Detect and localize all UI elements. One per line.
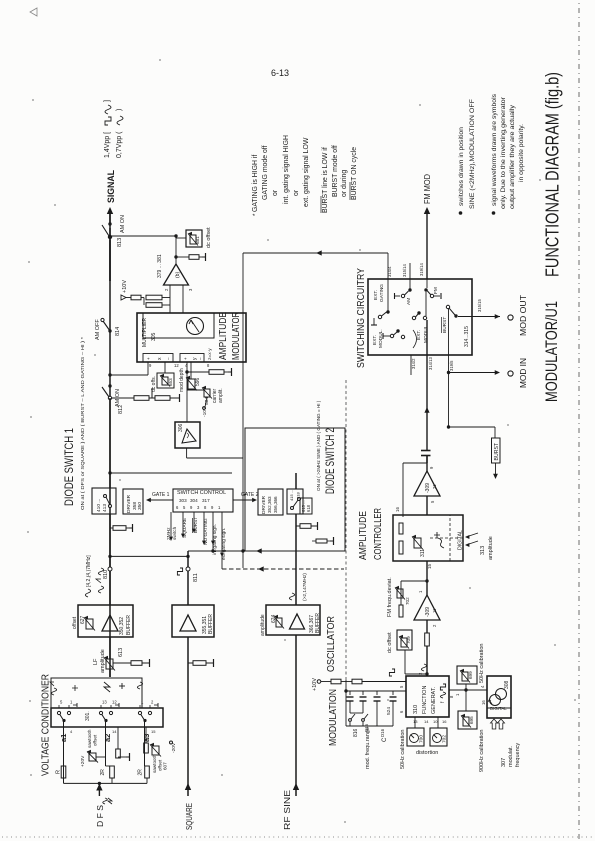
svg-text:SWITCH CONTROL: SWITCH CONTROL <box>177 490 226 496</box>
svg-text:314/4: 314/4 <box>387 266 392 277</box>
svg-text:5: 5 <box>183 505 186 510</box>
svg-text:MOD OUT: MOD OUT <box>518 295 528 336</box>
svg-text:15: 15 <box>427 564 432 569</box>
svg-text:9: 9 <box>429 466 434 469</box>
svg-text:702: 702 <box>442 735 448 743</box>
svg-text:switch: switch <box>172 526 178 540</box>
svg-text:303: 303 <box>179 498 187 503</box>
svg-text:307: 307 <box>501 758 507 767</box>
svg-text:314/13: 314/13 <box>428 357 433 370</box>
svg-text:16: 16 <box>481 700 486 705</box>
svg-text:12: 12 <box>174 363 179 368</box>
svg-text:SQUARE: SQUARE <box>185 803 194 830</box>
svg-text:308: 308 <box>504 680 510 689</box>
svg-text:offset: offset <box>72 616 78 629</box>
svg-text:DIODE SWITCH 2: DIODE SWITCH 2 <box>323 428 337 494</box>
svg-text:304: 304 <box>190 498 198 503</box>
svg-text:DIGITAL: DIGITAL <box>458 530 464 550</box>
svg-text:frequency: frequency <box>515 743 521 767</box>
svg-text:524: 524 <box>386 707 392 715</box>
svg-text:ext.gating sign.: ext.gating sign. <box>221 528 227 560</box>
svg-text:a3: a3 <box>142 734 151 742</box>
svg-text:SQUARE: SQUARE <box>182 518 188 538</box>
svg-text:9: 9 <box>211 505 214 510</box>
svg-text:315/15: 315/15 <box>477 299 482 312</box>
svg-text:sawtooth: sawtooth <box>152 754 157 773</box>
svg-text:EXT.: EXT. <box>373 290 379 300</box>
svg-text:816: 816 <box>353 728 359 737</box>
svg-text:GATING mode off: GATING mode off <box>262 145 269 200</box>
svg-text:379 ... 381: 379 ... 381 <box>157 254 163 278</box>
svg-text:signal waveforms drawn are sym: signal waveforms drawn are symbols <box>491 93 498 206</box>
svg-text:2R: 2R <box>100 769 106 776</box>
svg-text:MODULATOR: MODULATOR <box>231 312 242 360</box>
svg-text:350: 350 <box>137 502 143 510</box>
svg-text:MULTIPLIER: MULTIPLIER <box>142 318 148 347</box>
svg-text:627: 627 <box>80 615 86 624</box>
svg-text:BURST: BURST <box>442 317 448 333</box>
svg-text:3: 3 <box>188 288 193 291</box>
svg-text:FM: FM <box>433 287 439 294</box>
svg-text:MODUL.: MODUL. <box>423 324 429 343</box>
svg-text:310: 310 <box>413 705 419 714</box>
svg-text:modulat.: modulat. <box>508 745 514 767</box>
svg-text:or during: or during <box>341 170 348 197</box>
svg-text:813: 813 <box>117 238 123 247</box>
svg-text:50Hz calibration: 50Hz calibration <box>400 730 406 769</box>
svg-text:]: ] <box>104 100 111 102</box>
svg-text:311: 311 <box>420 549 426 557</box>
svg-text:4: 4 <box>480 685 485 688</box>
svg-text:EXT.: EXT. <box>416 330 422 340</box>
svg-text:11: 11 <box>432 608 437 613</box>
svg-text:4: 4 <box>70 729 73 734</box>
svg-text:offset: offset <box>93 734 98 746</box>
svg-text:MOD IN: MOD IN <box>518 358 528 388</box>
svg-text:FM MOD: FM MOD <box>422 174 432 204</box>
svg-text:RF SINE: RF SINE <box>283 790 292 830</box>
svg-text:mod depth: mod depth <box>179 368 185 392</box>
svg-text:D16: D16 <box>380 728 385 737</box>
svg-text:BURST mode off: BURST mode off <box>332 145 339 197</box>
svg-text:700: 700 <box>419 735 425 743</box>
svg-text:only. Due to the inverting gen: only. Due to the inverting generator <box>500 96 507 209</box>
svg-text:1: 1 <box>70 700 73 705</box>
svg-text:GATING: GATING <box>379 284 385 302</box>
svg-text:(>2,147MHz): (>2,147MHz) <box>302 573 308 601</box>
svg-text:z=x·y: z=x·y <box>208 348 213 360</box>
svg-text:LF: LF <box>93 658 99 665</box>
svg-text:613: 613 <box>118 648 124 657</box>
svg-text:1: 1 <box>455 693 460 696</box>
svg-text:2: 2 <box>151 700 154 705</box>
svg-text:315/14: 315/14 <box>402 264 407 277</box>
svg-text:12: 12 <box>112 700 117 705</box>
svg-text:DIGITAL: DIGITAL <box>490 706 507 711</box>
svg-text:BUFFER: BUFFER <box>208 614 214 634</box>
svg-text:1: 1 <box>418 590 423 593</box>
svg-text:): ) <box>116 109 123 111</box>
svg-text:dc offset: dc offset <box>206 227 212 248</box>
svg-text:-309: -309 <box>425 607 431 617</box>
svg-text:FUNCTION: FUNCTION <box>422 686 428 714</box>
svg-text:699: 699 <box>468 671 473 679</box>
svg-text:GATING is HIGH if: GATING is HIGH if <box>252 155 259 212</box>
svg-text:2R: 2R <box>138 769 144 776</box>
svg-text:415 ...: 415 ... <box>289 490 294 501</box>
svg-text:dc offset: dc offset <box>387 632 393 653</box>
svg-text:R: R <box>56 770 62 774</box>
svg-text:ext. gating signal LOW: ext. gating signal LOW <box>303 137 310 207</box>
svg-text:ON at ( >2MHz SINE ) AND ( GAT: ON at ( >2MHz SINE ) AND ( GATING = HI ) <box>316 400 321 491</box>
svg-text:SINE (<2MHz),MODULATION OFF: SINE (<2MHz),MODULATION OFF <box>469 99 476 209</box>
svg-text:13: 13 <box>102 700 107 705</box>
svg-text:+: + <box>183 357 188 360</box>
svg-text:GATE 2: GATE 2 <box>241 492 259 498</box>
svg-text:314...315: 314...315 <box>464 326 470 347</box>
svg-text:314/2: 314/2 <box>411 358 416 369</box>
svg-text:OSCILLATOR: OSCILLATOR <box>326 616 337 672</box>
svg-text:DRIVER: DRIVER <box>126 494 132 513</box>
svg-text:distortion: distortion <box>416 750 438 756</box>
svg-text:618: 618 <box>306 504 311 512</box>
svg-text:SWITCHING CIRCUITRY: SWITCHING CIRCUITRY <box>355 268 367 368</box>
svg-text:VOLTAGE CONDITIONER: VOLTAGE CONDITIONER <box>41 674 52 776</box>
svg-text:2: 2 <box>164 288 169 291</box>
svg-text:16: 16 <box>442 719 447 724</box>
svg-text:AM OFF: AM OFF <box>95 319 101 340</box>
svg-text:BUFFER: BUFFER <box>315 613 321 633</box>
svg-text:410 ...: 410 ... <box>96 499 102 512</box>
svg-text:MODULATOR/U1: MODULATOR/U1 <box>543 301 561 402</box>
svg-text:BURST: BURST <box>193 517 199 533</box>
svg-text:681: 681 <box>195 236 200 244</box>
svg-text:MODULATION: MODULATION <box>328 689 339 746</box>
svg-text:+10V: +10V <box>122 280 128 293</box>
svg-text:ON at ( DFS or SQUARE ) AND (: ON at ( DFS or SQUARE ) AND ( BURST – L … <box>80 337 85 510</box>
svg-text:BURST line is LOW if: BURST line is LOW if <box>322 147 329 213</box>
svg-text:mod. frequ.range: mod. frequ.range <box>365 727 371 769</box>
svg-text:a2: a2 <box>103 734 112 742</box>
svg-text:5: 5 <box>430 500 435 503</box>
svg-text:596: 596 <box>195 377 201 386</box>
svg-text:319/14: 319/14 <box>419 263 424 276</box>
svg-text:6-13: 6-13 <box>271 68 289 78</box>
svg-text:4: 4 <box>185 363 188 368</box>
svg-text:int. gating signal HIGH: int. gating signal HIGH <box>283 135 290 204</box>
svg-text:313: 313 <box>480 546 486 555</box>
svg-text:or: or <box>272 189 279 196</box>
svg-text:624: 624 <box>271 614 277 623</box>
svg-text:BURST: BURST <box>494 442 500 460</box>
svg-text:14: 14 <box>112 729 117 734</box>
svg-text:amplitude: amplitude <box>488 536 494 560</box>
svg-text:amplitude: amplitude <box>100 649 106 673</box>
svg-text:6: 6 <box>176 505 179 510</box>
svg-text:amplitude: amplitude <box>260 614 266 636</box>
svg-text:EXT.: EXT. <box>372 335 378 345</box>
svg-text:DIODE SWITCH 1: DIODE SWITCH 1 <box>62 428 76 506</box>
svg-text:9: 9 <box>190 505 193 510</box>
svg-text:+10V: +10V <box>312 678 318 691</box>
svg-text:16: 16 <box>395 507 400 512</box>
svg-text:305: 305 <box>151 332 157 341</box>
svg-text:9: 9 <box>149 363 152 368</box>
svg-text:–: – <box>198 357 203 360</box>
svg-text:amplit.: amplit. <box>218 388 224 403</box>
svg-text:1,4Vpp [: 1,4Vpp [ <box>104 132 111 158</box>
svg-text:*: * <box>253 213 259 216</box>
svg-text:352,363: 352,363 <box>267 496 272 513</box>
svg-text:306: 306 <box>178 423 184 432</box>
svg-text:356,366: 356,366 <box>273 496 278 513</box>
svg-text:653: 653 <box>168 378 173 386</box>
svg-text:10: 10 <box>433 719 438 724</box>
svg-text:8: 8 <box>207 363 210 368</box>
svg-text:C: C <box>382 737 388 742</box>
svg-text:695: 695 <box>469 716 474 724</box>
svg-text:BURST ON cycle: BURST ON cycle <box>351 147 358 200</box>
svg-text:AMPLITUDE: AMPLITUDE <box>358 511 369 560</box>
svg-text:switches drawn in position: switches drawn in position <box>458 127 465 206</box>
svg-text:21: 21 <box>432 484 437 489</box>
svg-text:BUFFER: BUFFER <box>126 615 132 635</box>
svg-text:607: 607 <box>163 762 168 770</box>
svg-text:8: 8 <box>204 505 207 510</box>
svg-text:900Hz calibration: 900Hz calibration <box>479 730 485 773</box>
svg-text:811: 811 <box>193 573 199 582</box>
svg-text:14: 14 <box>424 719 429 724</box>
svg-text:f: f <box>440 701 446 703</box>
svg-text:317: 317 <box>202 498 210 503</box>
svg-text:2MHz: 2MHz <box>166 527 172 540</box>
svg-text:(b): (b) <box>175 272 181 278</box>
svg-text:301.: 301. <box>85 711 91 721</box>
svg-text:413: 413 <box>102 504 108 512</box>
svg-text:13: 13 <box>413 719 418 724</box>
svg-text:[4,2,(4,)7MHz]: [4,2,(4,)7MHz] <box>86 555 92 587</box>
svg-text:3: 3 <box>197 505 200 510</box>
svg-text:AM: AM <box>406 298 412 305</box>
svg-text:+20V: +20V <box>80 755 86 767</box>
svg-text:output amplifier they are actu: output amplifier they are actually <box>509 104 516 209</box>
svg-text:SIGNAL: SIGNAL <box>106 170 117 203</box>
svg-text:319/5: 319/5 <box>449 360 454 371</box>
svg-text:-309: -309 <box>425 483 431 493</box>
svg-text:5: 5 <box>399 685 404 688</box>
svg-text:702: 702 <box>405 597 410 605</box>
svg-text:50Hz calibration: 50Hz calibration <box>479 644 485 683</box>
svg-text:AM ON: AM ON <box>120 215 126 233</box>
svg-text:NO GATING: NO GATING <box>203 518 209 545</box>
svg-text:810: 810 <box>103 570 109 579</box>
svg-text:FM frequ.deviat.: FM frequ.deviat. <box>387 577 393 617</box>
svg-text:GENERAT.: GENERAT. <box>431 686 437 714</box>
svg-text:sawtooth: sawtooth <box>87 729 92 748</box>
svg-text:or: or <box>293 189 300 196</box>
svg-text:GATE 1: GATE 1 <box>152 492 170 498</box>
svg-text:2: 2 <box>432 624 437 627</box>
svg-text:in opposite polarity.: in opposite polarity. <box>518 124 525 182</box>
svg-text:350,352: 350,352 <box>119 617 125 635</box>
svg-text:6: 6 <box>399 710 404 713</box>
svg-text:5: 5 <box>60 700 63 705</box>
svg-text:0,7Vpp (: 0,7Vpp ( <box>116 131 123 158</box>
svg-text:814: 814 <box>115 327 121 336</box>
svg-text:D F S: D F S <box>96 805 105 827</box>
svg-text:AMPLITUDE: AMPLITUDE <box>218 312 229 360</box>
svg-text:15: 15 <box>151 729 156 734</box>
svg-text:2: 2 <box>418 672 423 675</box>
svg-text:dc offs.: dc offs. <box>151 376 157 392</box>
svg-text:–: – <box>166 357 171 360</box>
svg-text:CONTROLLER: CONTROLLER <box>373 508 384 560</box>
svg-text:1: 1 <box>218 505 221 510</box>
svg-text:FUNCTIONAL DIAGRAM (fig.b): FUNCTIONAL DIAGRAM (fig.b) <box>542 72 563 277</box>
svg-text:x: x <box>157 357 163 360</box>
svg-text:709: 709 <box>406 636 411 644</box>
svg-text:+: + <box>146 357 151 360</box>
